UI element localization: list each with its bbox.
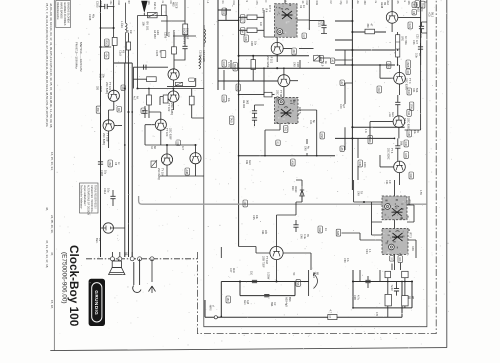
- label TA1: [283, 126, 288, 133]
- svg-text:R24: R24: [412, 88, 415, 93]
- transistor T2 2SC828: [108, 90, 119, 101]
- capacitor C4B: [394, 289, 399, 291]
- transistor T3 2SC828: [168, 91, 179, 102]
- label 134: [240, 28, 245, 35]
- label 4u7: [133, 96, 139, 101]
- svg-text:C24: C24: [365, 249, 368, 254]
- svg-text:MP.0: MP.0: [209, 305, 212, 311]
- svg-text:R63: R63: [318, 228, 321, 233]
- label 2K0: [377, 86, 382, 93]
- label TY4B: [276, 90, 283, 102]
- label A1: [330, 58, 335, 63]
- wire: [392, 263, 401, 271]
- svg-text:C4B: C4B: [250, 41, 253, 46]
- transistor T4 2SC828Q: [103, 120, 114, 131]
- svg-text:46,: 46,: [45, 207, 49, 211]
- svg-text:AK4 C109: AK4 C109: [202, 50, 206, 62]
- label A5: [340, 146, 345, 151]
- svg-text:1K: 1K: [302, 5, 305, 8]
- label C50: [343, 258, 349, 263]
- wire T8: [277, 37, 292, 62]
- svg-text:40n: 40n: [104, 54, 107, 59]
- svg-text:10n: 10n: [129, 30, 132, 35]
- svg-text:4p7: 4p7: [342, 104, 345, 109]
- earphone jack: [133, 259, 141, 293]
- svg-text:16, 15, 36, 34,: 16, 15, 36, 34,: [50, 152, 54, 171]
- label AE1: [236, 84, 241, 91]
- svg-text:4.7K: 4.7K: [227, 62, 230, 67]
- resistor: [385, 271, 391, 277]
- svg-text:C4B: C4B: [386, 63, 389, 68]
- capacitor C2B: [365, 280, 370, 282]
- svg-text:4.7: 4.7: [329, 310, 332, 314]
- svg-text:+1.6: +1.6: [388, 112, 391, 117]
- label C10B: [88, 14, 94, 21]
- wire: [299, 48, 352, 60]
- junction: [283, 67, 285, 69]
- svg-text:4n7: 4n7: [181, 146, 184, 151]
- label C24: [365, 249, 371, 254]
- junction: [238, 55, 240, 57]
- label C106: [164, 32, 171, 39]
- transistor T13 2SC829: [393, 116, 405, 128]
- label A4: [153, 30, 160, 39]
- svg-text:Wellenbereiche: Wellenbereiche: [56, 2, 59, 20]
- pot TU102: [151, 160, 157, 167]
- svg-text:2K0: 2K0: [377, 88, 380, 93]
- svg-text:AE5: AE5: [417, 7, 420, 12]
- inner frame: [204, 0, 427, 327]
- label C3N: [252, 215, 258, 220]
- svg-text:TY 4: TY 4: [408, 78, 412, 84]
- label R26: [244, 35, 249, 42]
- label C8: [412, 10, 417, 15]
- svg-text:330: 330: [96, 108, 99, 113]
- capacitor C121: [321, 25, 326, 27]
- label TY104: [157, 168, 163, 180]
- label 1Kb: [324, 228, 327, 231]
- svg-text:47p: 47p: [339, 1, 342, 6]
- svg-text:R52: R52: [320, 134, 323, 139]
- label C23: [412, 40, 418, 45]
- svg-text:AK: AK: [136, 96, 139, 100]
- svg-text:TY 104: TY 104: [160, 168, 163, 177]
- outer frame: [446, 0, 448, 348]
- svg-text:10n: 10n: [99, 1, 103, 6]
- label 100K: [363, 162, 366, 168]
- label 10.7: [261, 8, 267, 13]
- svg-text:B93: B93: [270, 302, 273, 307]
- middle dash-dot frame: [197, 0, 436, 334]
- svg-text:10.7: 10.7: [261, 8, 264, 13]
- svg-text:1FT 4: 1FT 4: [268, 5, 271, 12]
- label MP0: [209, 305, 215, 311]
- svg-text:C34: C34: [385, 180, 388, 185]
- connector pin: [138, 257, 142, 261]
- capacitor C21: [418, 47, 423, 49]
- svg-text:0.6V: 0.6V: [411, 246, 414, 251]
- label TY102: [167, 103, 174, 115]
- transistor T6 2SC828: [161, 154, 172, 165]
- resistor R108: [183, 24, 188, 35]
- svg-text:C23: C23: [412, 40, 415, 45]
- label AE9: [285, 297, 291, 307]
- label R61: [261, 230, 267, 235]
- svg-text:4.7u: 4.7u: [357, 295, 360, 300]
- svg-text:ALTERATIONS OF DESIGN: ALTERATIONS OF DESIGN: [87, 185, 90, 215]
- svg-text:4.5V: 4.5V: [419, 190, 422, 195]
- label AE48: [380, 2, 386, 9]
- label OA90: [291, 186, 297, 193]
- svg-text:3.3n: 3.3n: [415, 53, 418, 58]
- label C9: [176, 140, 181, 145]
- label BV12: [233, 63, 238, 71]
- junction: [351, 49, 353, 51]
- svg-text:AE9 4g8: AE9 4g8: [285, 297, 288, 307]
- junction: [401, 281, 403, 283]
- junction: [276, 67, 278, 69]
- wire band switch bus: [114, 63, 133, 257]
- label C31: [222, 95, 227, 102]
- resistor R104: [112, 37, 117, 45]
- capacitor C107: [182, 46, 187, 48]
- wire: [295, 220, 297, 232]
- junction: [352, 280, 354, 282]
- junction: [351, 20, 353, 22]
- svg-text:RESERVED ! MODIFICA-: RESERVED ! MODIFICA-: [90, 185, 93, 213]
- svg-text:1 1: 1 1: [368, 249, 371, 253]
- svg-text:499: 499: [245, 160, 248, 165]
- label R1: [117, 107, 122, 113]
- svg-text:B93: B93: [288, 297, 291, 302]
- svg-text:3N: 3N: [396, 1, 399, 4]
- junction: [238, 67, 240, 69]
- svg-text:R11: R11: [407, 111, 410, 116]
- label 10u: [227, 98, 230, 103]
- label A2: [340, 80, 345, 85]
- label R3: [299, 5, 305, 9]
- label B93: [270, 302, 276, 307]
- label C1u3: [119, 50, 125, 56]
- svg-text:78,77, 7, 39,/34,/4,8,28/,69,9: 78,77, 7, 39,/34,/4,8,28/,69,9,39,.07,10…: [45, 3, 49, 127]
- junction: [113, 27, 115, 29]
- junction: [397, 49, 399, 51]
- svg-text:WAVE BANDS: WAVE BANDS: [59, 2, 62, 19]
- resistor R133: [365, 29, 375, 34]
- label TY103: [165, 128, 172, 140]
- tuning gang pointer: [141, 1, 147, 13]
- svg-text:C11: C11: [232, 1, 235, 6]
- resistor R112: [163, 95, 168, 103]
- svg-text:110: 110: [250, 271, 253, 276]
- svg-text:4B: 4B: [122, 50, 125, 53]
- wire: [342, 233, 383, 240]
- label C45: [303, 146, 309, 151]
- wire output bottom net: [221, 282, 308, 318]
- svg-text:GRUNDIG: GRUNDIG: [94, 290, 99, 315]
- pcb outline: [139, 196, 427, 204]
- junction: [363, 201, 365, 203]
- svg-text:2SC 829C: 2SC 829C: [407, 118, 411, 130]
- label C4: [126, 30, 132, 35]
- label 4n7: [181, 146, 184, 151]
- label C121: [317, 21, 323, 28]
- svg-text:L 103: L 103: [120, 21, 124, 28]
- label 10K: [398, 256, 403, 263]
- resistor R126: [247, 28, 257, 33]
- wire: [149, 89, 204, 119]
- junction: [148, 88, 150, 90]
- svg-text:47n: 47n: [419, 34, 422, 39]
- capacitor C5: [395, 146, 400, 148]
- transistor T1 2SC929: [168, 69, 179, 80]
- label P114: [312, 272, 318, 278]
- label R12: [222, 60, 227, 67]
- label A3B: [291, 159, 296, 166]
- junction: [172, 87, 174, 89]
- svg-text:110n: 110n: [232, 268, 235, 274]
- svg-text:FM 4x: FM 4x: [153, 2, 157, 10]
- inductor L103: [126, 3, 128, 63]
- transistor T9 2SC929 IF amp 2: [278, 75, 290, 87]
- svg-text:4n7: 4n7: [415, 40, 418, 45]
- svg-text:330: 330: [366, 24, 369, 29]
- label R8: [406, 69, 411, 74]
- junction: [394, 138, 396, 140]
- label R35: [358, 160, 363, 167]
- label 4B0: [108, 160, 113, 167]
- junction: [352, 307, 354, 309]
- svg-text:C46: C46: [300, 234, 303, 239]
- svg-text:TY 4B: TY 4B: [279, 90, 283, 97]
- svg-text:AE: AE: [356, 1, 359, 5]
- svg-text:AE4: AE4: [243, 300, 246, 305]
- wire T4 net: [109, 101, 122, 148]
- label C104: [98, 74, 105, 81]
- label TY4b: [403, 118, 411, 130]
- svg-text:10u: 10u: [103, 170, 106, 175]
- resistor: [402, 271, 408, 277]
- junction: [239, 280, 241, 282]
- wire T1 bias: [161, 0, 196, 69]
- trimmer C101: [148, 12, 158, 17]
- svg-text:6B: 6B: [316, 272, 319, 275]
- junction: [238, 155, 240, 157]
- wire: [144, 106, 146, 118]
- junction: [264, 155, 266, 157]
- svg-text:3V: 3V: [98, 238, 102, 241]
- wire IFT feed: [354, 180, 382, 235]
- GRUNDIG logo badge: [89, 279, 105, 326]
- svg-text:R35: R35: [358, 162, 361, 167]
- junction: [124, 87, 126, 89]
- label 47K: [227, 62, 230, 67]
- label C105: [155, 50, 162, 57]
- label C11: [222, 8, 227, 15]
- junction: [124, 144, 126, 146]
- label 330: [292, 48, 297, 55]
- svg-text:4g8: 4g8: [246, 300, 249, 305]
- svg-text:BV 101: BV 101: [145, 22, 149, 31]
- label R4: [150, 146, 156, 150]
- svg-text:B40: B40: [407, 90, 410, 95]
- svg-text:TY 110: TY 110: [265, 256, 269, 265]
- label 45V: [419, 190, 422, 195]
- svg-text:400: 400: [243, 202, 246, 207]
- label 400: [243, 200, 248, 207]
- label TY101: [105, 82, 112, 94]
- wire T11: [392, 0, 421, 32]
- label C47: [229, 268, 235, 274]
- svg-text:100K: 100K: [409, 104, 412, 110]
- measurement point MP.0: [214, 316, 217, 319]
- resistor R128: [251, 60, 255, 70]
- svg-text:AE4: AE4: [386, 1, 389, 6]
- page left rule: [53, 0, 55, 351]
- svg-text:330: 330: [363, 1, 366, 6]
- wire: [367, 276, 369, 288]
- label R21: [408, 22, 413, 29]
- svg-text:C10: C10: [117, 1, 120, 6]
- label TY110: [262, 256, 270, 268]
- wire: [308, 270, 310, 296]
- svg-text:R61: R61: [261, 230, 264, 235]
- svg-text:1K: 1K: [324, 228, 327, 231]
- svg-text:3V: 3V: [306, 234, 309, 237]
- wire right bus: [352, 0, 420, 190]
- label R52: [320, 132, 325, 139]
- wire IFT links: [395, 205, 417, 270]
- label C20: [416, 34, 422, 39]
- svg-text:963: 963: [245, 100, 248, 105]
- label A3B: [336, 229, 341, 236]
- connector pin: [150, 257, 154, 261]
- svg-text:1FT 5: 1FT 5: [298, 107, 301, 114]
- wire T1 emitter: [133, 67, 168, 88]
- svg-text:10u: 10u: [227, 98, 230, 103]
- svg-text:BV: BV: [127, 1, 130, 5]
- IF transformer IFT5: [275, 97, 300, 124]
- junction: [351, 64, 353, 66]
- wire: [388, 278, 405, 318]
- label +1.6: [388, 112, 394, 117]
- transistor T10 2SB735 output: [270, 246, 283, 259]
- svg-text:GAMMES D.ONDES: GAMMES D.ONDES: [63, 2, 66, 26]
- svg-text:R10: R10: [104, 41, 107, 46]
- svg-text:C40: C40: [339, 104, 342, 109]
- svg-text:AE3: AE3: [391, 112, 394, 117]
- resistor 4.7ohm: [328, 315, 337, 320]
- wire osc net: [138, 16, 168, 89]
- label 40n: [104, 52, 109, 59]
- svg-text:D10: D10: [291, 186, 294, 191]
- svg-text:1K: 1K: [301, 1, 304, 4]
- svg-text:2SC 828Q: 2SC 828Q: [157, 168, 160, 180]
- svg-text:134: 134: [240, 29, 243, 34]
- svg-text:SFE: SFE: [401, 36, 404, 41]
- wire T3 net: [138, 89, 204, 111]
- svg-text:220: 220: [321, 21, 324, 26]
- svg-text:1 K: 1 K: [364, 129, 367, 133]
- svg-text:AE3: AE3: [248, 160, 251, 165]
- label C44: [309, 120, 315, 125]
- svg-text:C1B: C1B: [296, 62, 299, 67]
- junction: [113, 6, 115, 8]
- svg-text:R26: R26: [244, 37, 247, 42]
- connector pin: [110, 257, 114, 261]
- svg-text:2SC 829F: 2SC 829F: [186, 28, 189, 40]
- label C40: [339, 104, 345, 109]
- wire: [239, 94, 275, 96]
- resistor R111: [147, 95, 152, 105]
- wire: [167, 78, 196, 86]
- label B4: [412, 2, 417, 7]
- svg-text:Technische Verbesser-: Technische Verbesser-: [80, 185, 83, 209]
- svg-text:47n: 47n: [388, 180, 391, 185]
- label C108 C109: [198, 50, 205, 63]
- svg-text:AB: AB: [125, 252, 128, 256]
- inductor L105: [199, 25, 206, 69]
- IF transformer IFT1: [382, 196, 409, 220]
- junction: [379, 64, 381, 66]
- label box A4B0: [189, 78, 195, 81]
- label TY108: [102, 133, 109, 145]
- wire battery: [101, 227, 125, 229]
- label 470: [375, 312, 378, 317]
- label 330: [96, 106, 101, 113]
- svg-text:R105: R105: [99, 86, 102, 93]
- svg-text:40u: 40u: [91, 14, 94, 19]
- junction: [404, 281, 406, 283]
- resistor: [250, 65, 252, 67]
- svg-text:15, 18,: 15, 18,: [50, 300, 54, 309]
- diode D10 OA90: [300, 186, 304, 202]
- svg-text:Clock-Boy 100: Clock-Boy 100: [67, 245, 81, 327]
- label C8: [114, 162, 120, 166]
- svg-text:TA: TA: [360, 191, 363, 194]
- svg-text:470: 470: [375, 312, 378, 317]
- IF transformer IFT3: [382, 228, 410, 255]
- junction: [238, 20, 240, 22]
- label R4B: [404, 152, 409, 159]
- svg-text:AE 491: AE 491: [242, 100, 245, 109]
- wire IF bus: [218, 0, 239, 247]
- label 33n: [415, 53, 421, 58]
- svg-text:JA,8A,JW, 30, 103,01, 03, 17,: JA,8A,JW, 30, 103,01, 03, 17, 33, 09,105…: [49, 3, 53, 128]
- pot TU101: [175, 82, 182, 85]
- wire: [112, 252, 132, 257]
- svg-text:(E750006-906.00): (E750006-906.00): [60, 252, 67, 304]
- svg-text:R60: R60: [409, 174, 412, 179]
- label R6: [121, 85, 126, 90]
- transistor T12 2SC829: [394, 72, 406, 84]
- svg-text:10K: 10K: [398, 257, 401, 262]
- wire: [397, 32, 399, 65]
- svg-text:0.4u: 0.4u: [303, 234, 306, 239]
- wire: [101, 28, 114, 47]
- connector pin: [130, 257, 134, 261]
- svg-text:7u/3V: 7u/3V: [390, 285, 393, 292]
- wire chassis connector line: [86, 258, 197, 260]
- wire: [101, 6, 114, 8]
- svg-text:1K: 1K: [418, 53, 421, 56]
- volume pot P114: [314, 273, 318, 289]
- junction: [316, 155, 318, 157]
- transistor T14 2SC829: [394, 161, 406, 173]
- svg-text:C44: C44: [309, 120, 312, 125]
- svg-text:C49: C49: [356, 191, 359, 196]
- wire ground bus: [205, 282, 402, 318]
